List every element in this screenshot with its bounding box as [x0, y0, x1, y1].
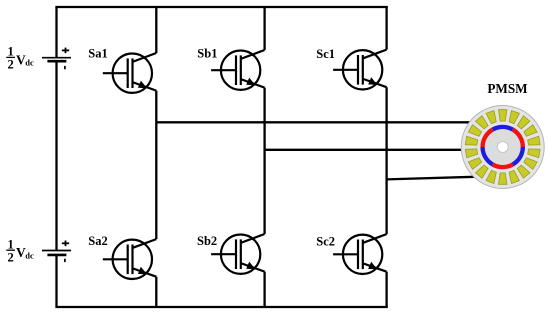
phase b leg: wire from Sb2 emitter to bottom rail — [263, 272, 265, 307]
rotor core disc — [485, 129, 521, 165]
svg-text:dc: dc — [25, 58, 34, 68]
IGBT transistor Sc1 — [333, 50, 387, 90]
rotor magnet red arc 120-180 deg — [483, 130, 493, 147]
left DC link wire lower segment — [55, 256, 57, 307]
svg-text:Sa2: Sa2 — [88, 234, 107, 248]
phase a leg: wire from Sa2 emitter to bottom rail — [155, 277, 157, 307]
rotor shaft hole — [497, 142, 508, 153]
phase c leg: wire between Sc1 emitter and Sc2 collector — [385, 87, 387, 234]
PMSM motor stator body — [461, 106, 544, 189]
left DC link wire upper segment — [55, 7, 57, 57]
rotor magnet blue arc 180-240 deg — [483, 147, 493, 164]
phase c leg: wire from Sc2 emitter to bottom rail — [385, 272, 387, 307]
rotor magnet blue arc 300-360 deg — [513, 147, 523, 164]
phase b leg: collector wire from top rail to Sb1 — [263, 7, 265, 50]
svg-text:Sb1: Sb1 — [197, 46, 217, 60]
rotor magnet blue arc 60-120 deg — [493, 127, 513, 130]
PMSM stator teeth (18 windings) — [465, 110, 540, 185]
IGBT transistor Sc2 — [333, 234, 387, 274]
battery/capacitor V2 (lower half DC link) with + and - marks — [42, 241, 71, 263]
bottom DC bus rail — [55, 306, 387, 308]
left DC link wire middle segment — [55, 62, 57, 250]
IGBT transistor Sb2 — [211, 234, 265, 274]
svg-text:Sc1: Sc1 — [316, 47, 335, 61]
svg-text:Sa1: Sa1 — [88, 46, 107, 60]
label 1/2 Vdc (lower) — [6, 237, 34, 264]
phase C output wire to motor — [387, 177, 474, 180]
phase a leg: collector wire from top rail to Sa1 — [155, 7, 157, 53]
rotor magnet red arc 0-60 deg — [513, 130, 523, 147]
svg-text:2: 2 — [7, 250, 13, 264]
battery/capacitor V1 (upper half DC link) with + and - marks — [42, 48, 71, 70]
svg-text:PMSM: PMSM — [487, 81, 528, 96]
svg-text:Sc2: Sc2 — [316, 234, 335, 248]
IGBT transistor Sb1 — [211, 50, 265, 90]
phase c leg: collector wire from top rail to Sc1 — [385, 7, 387, 50]
IGBT transistor Sa2 — [103, 239, 157, 279]
phase B output wire to motor — [265, 149, 462, 151]
svg-text:2: 2 — [7, 58, 13, 72]
label 1/2 Vdc (upper) — [6, 45, 34, 72]
phase a leg: wire between Sa1 emitter and Sa2 collector — [155, 91, 157, 240]
phase A output wire to motor — [156, 121, 470, 123]
svg-text:dc: dc — [25, 250, 34, 260]
IGBT transistor Sa1 — [103, 53, 157, 93]
phase b leg: wire between Sb1 emitter and Sb2 collector — [263, 88, 265, 234]
top DC bus rail — [55, 6, 387, 8]
svg-text:Sb2: Sb2 — [197, 234, 217, 248]
svg-text:1: 1 — [7, 45, 13, 59]
svg-text:1: 1 — [7, 237, 13, 251]
rotor magnet red arc 240-300 deg — [493, 164, 513, 167]
